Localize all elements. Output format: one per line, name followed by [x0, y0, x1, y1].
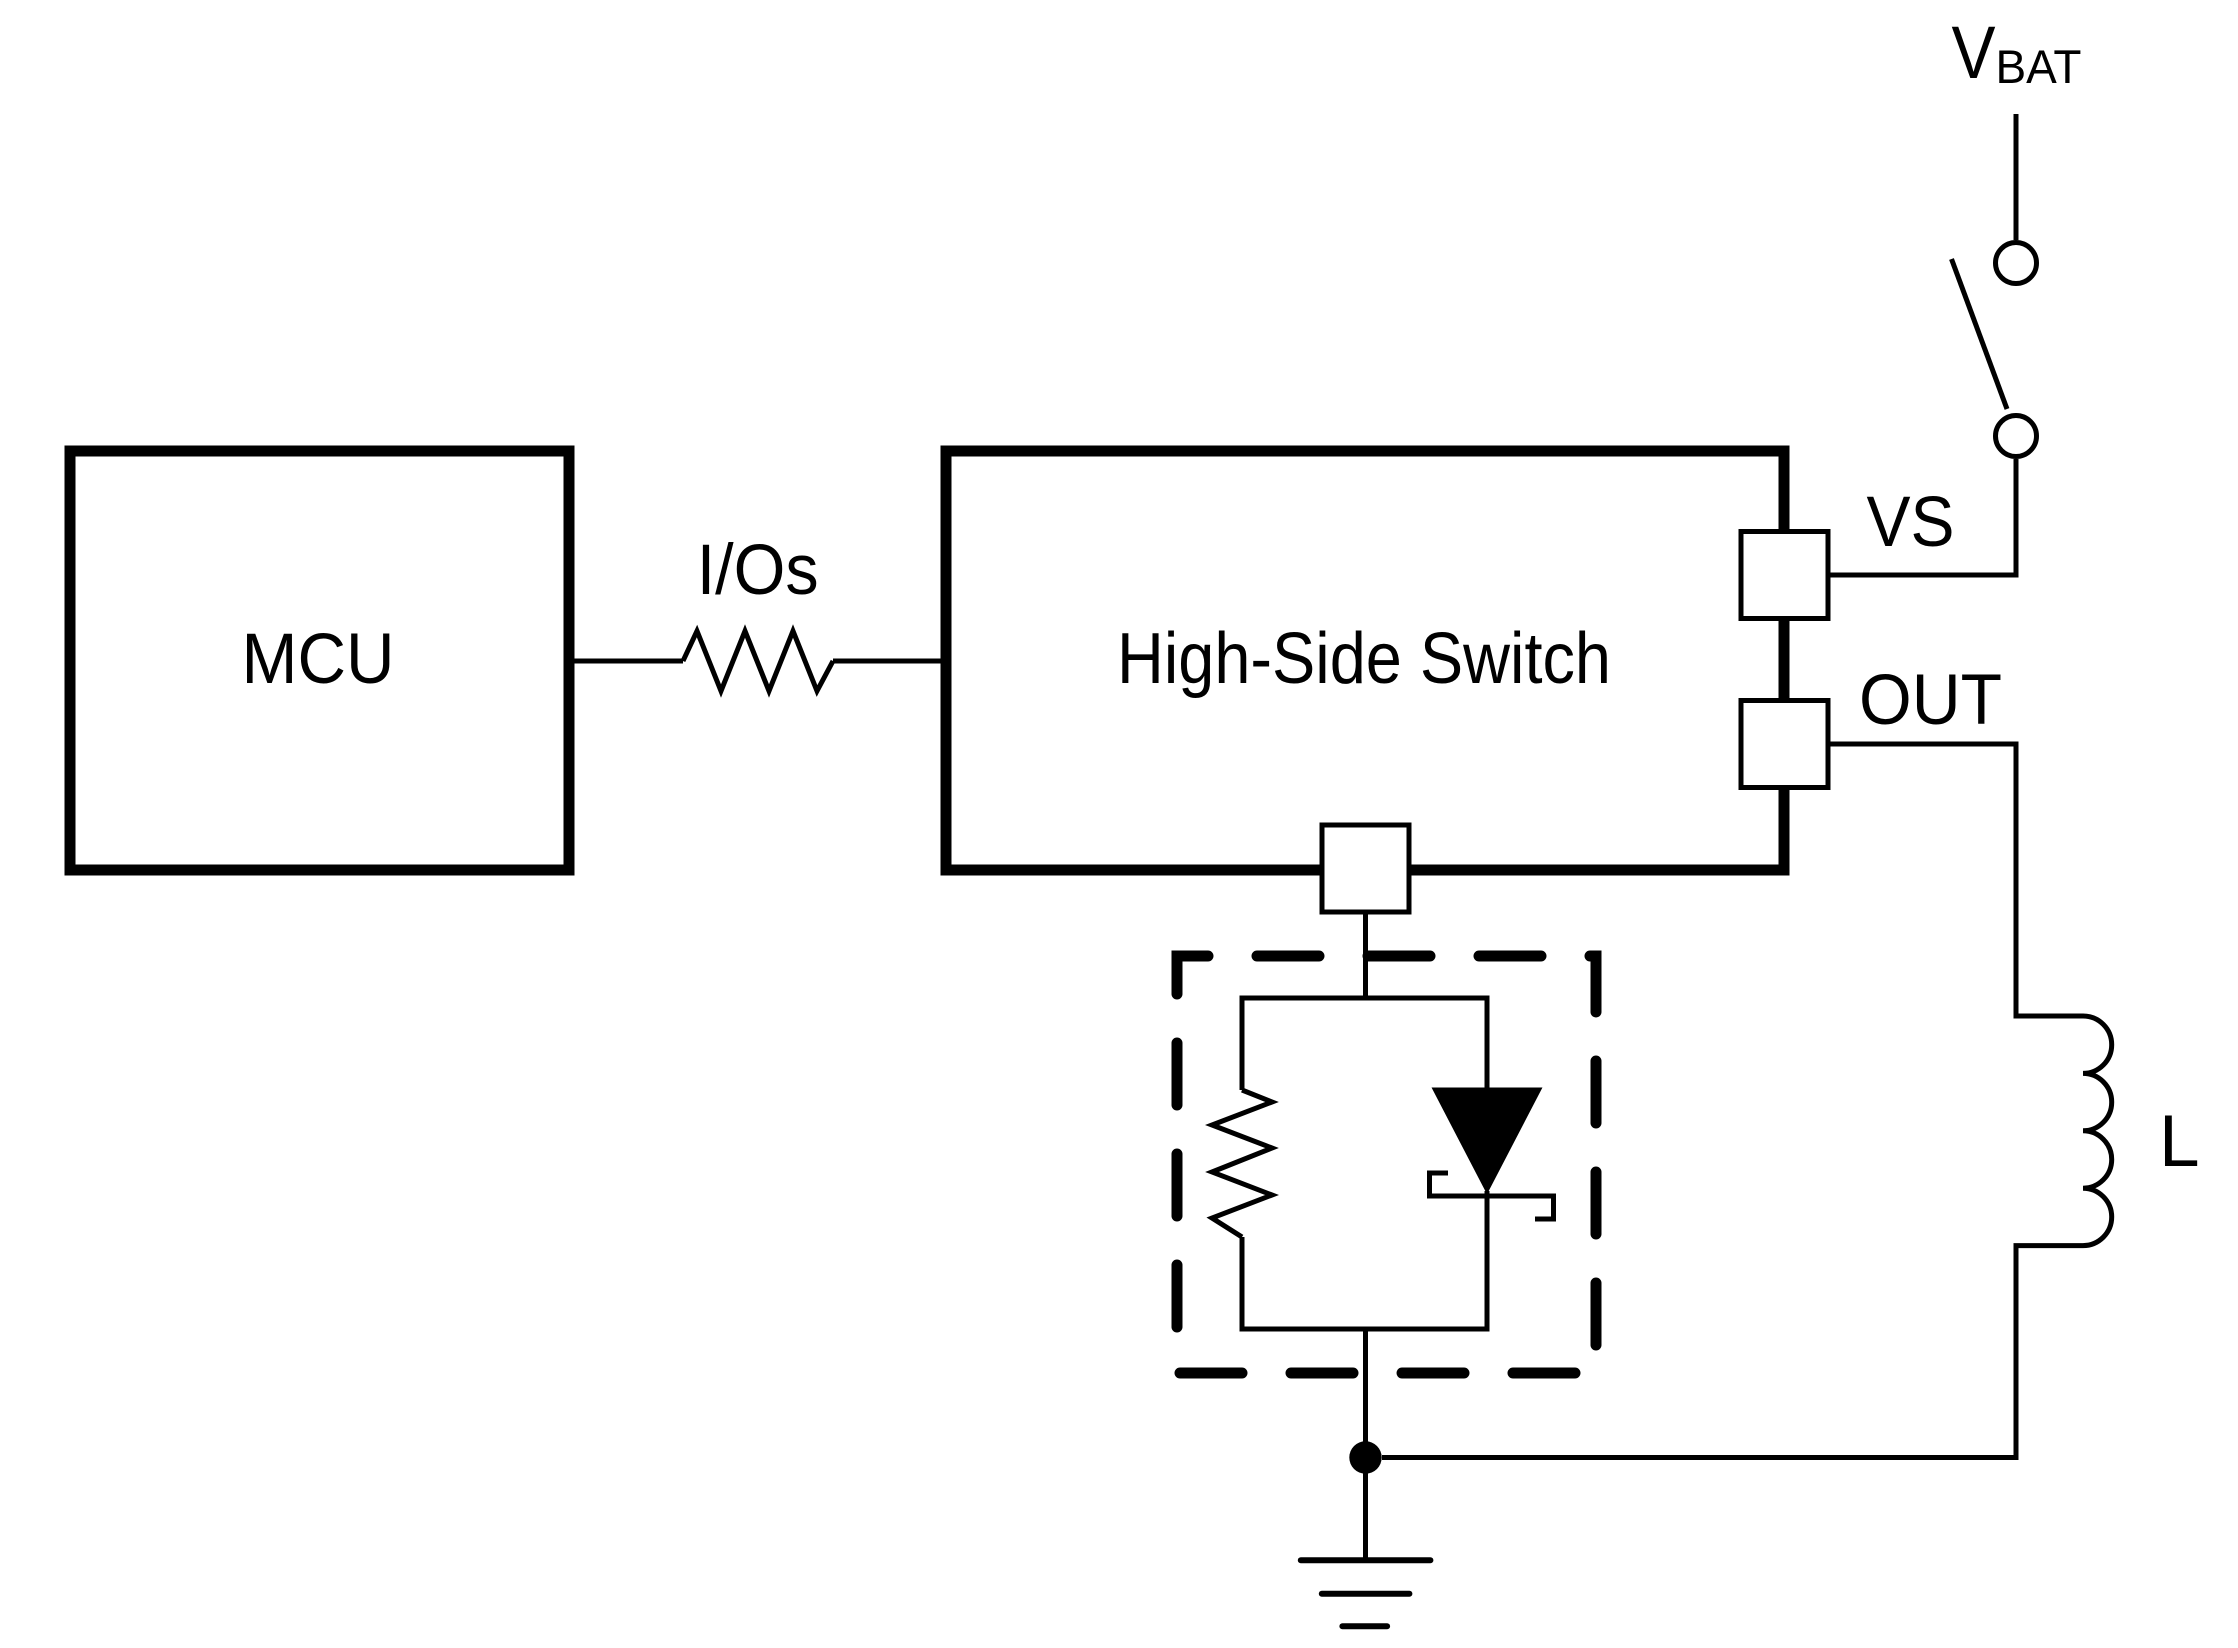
svg-text:VS: VS: [1867, 483, 1955, 562]
ground: [1301, 1557, 1431, 1563]
block MCU: [70, 451, 569, 870]
switch SW1: [1996, 243, 2037, 284]
inductor L: [2083, 1016, 2112, 1246]
node A junction: [1349, 1441, 1381, 1473]
svg-text:L: L: [2159, 1101, 2200, 1182]
svg-text:High-Side Switch: High-Side Switch: [1117, 619, 1611, 699]
wire GND pin to snubber: [1363, 912, 1368, 998]
wire VS pin to switch: [1828, 459, 2016, 575]
wire node A to ground: [1363, 1458, 1368, 1561]
snubber dashed box: [1177, 956, 1596, 1373]
svg-text:I/Os: I/Os: [697, 531, 819, 610]
snubber internal frame: [1242, 998, 1487, 1329]
wire snubber to node A: [1363, 1329, 1368, 1458]
svg-text:BAT: BAT: [1996, 40, 2082, 93]
pin GND bottom: [1322, 825, 1409, 912]
wire OUT pin to inductor: [1828, 744, 2083, 1016]
svg-text:MCU: MCU: [242, 620, 395, 699]
svg-text:OUT: OUT: [1859, 661, 2002, 740]
svg-text:V: V: [1952, 11, 1997, 94]
resistor R1 (I/Os series): [683, 631, 833, 691]
TVS diode D1: [1434, 1089, 1540, 1191]
pin VS: [1741, 532, 1828, 619]
wire VBAT: [2014, 114, 2019, 240]
wire inductor to node A: [1382, 1246, 2083, 1458]
resistor R2 (snubber): [1212, 1090, 1272, 1237]
block High-Side Switch: [946, 451, 1784, 870]
pin OUT: [1741, 701, 1828, 788]
wire I/O right: [833, 659, 941, 664]
wire I/O left: [574, 659, 683, 664]
